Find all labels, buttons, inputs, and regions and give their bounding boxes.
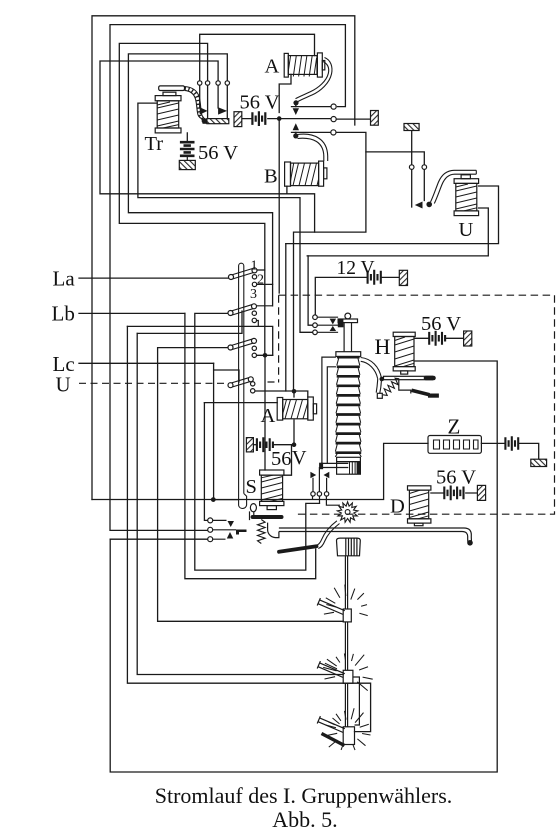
node mid A top dot — [292, 389, 297, 394]
wire H bottom to right border — [110, 361, 497, 772]
wire Tr battery to pad — [186, 156, 188, 161]
selector cone discs — [335, 357, 361, 453]
battery 12V — [368, 270, 381, 285]
ground pad Z row (hatched horizontal) — [531, 459, 547, 466]
contact circle lower bank 1 — [208, 518, 213, 523]
wire U switch feed from contact3 chain — [366, 152, 424, 165]
wire 12V feed — [315, 277, 367, 315]
ground pad top right (hatched horizontal with stem) — [404, 124, 419, 131]
svg-text:U: U — [56, 373, 71, 397]
wiper 3 spark lines — [324, 708, 371, 750]
node A armature dot — [293, 100, 298, 105]
wire mid bank stubs below — [313, 496, 341, 505]
contact circle U switch right — [422, 165, 427, 170]
wire mid A coil through — [293, 391, 295, 444]
wiper shaft segment 3 — [345, 683, 347, 727]
relay A top: coil body — [288, 56, 317, 77]
contact arrow mid bank right — [324, 472, 330, 479]
armature arc from collar — [361, 358, 382, 379]
wire alongside cone left inner — [327, 367, 336, 464]
wire mid battery to A — [273, 444, 294, 446]
wiper 2 collar — [343, 670, 353, 683]
wire U ground stem — [411, 131, 413, 166]
H armature bar black tip — [426, 376, 434, 381]
svg-text:56 V: 56 V — [240, 92, 280, 114]
relay Tr armature curved wire to contact pad — [185, 87, 208, 120]
wire 12V battery to ground — [382, 276, 400, 278]
svg-text:V: V — [292, 447, 307, 469]
wire A/B row3 left segment — [292, 131, 331, 133]
relay H bottom plate — [393, 367, 415, 371]
node Lc junction dot — [263, 353, 268, 358]
svg-text:A: A — [265, 56, 280, 78]
contact anchor block shaft rows — [338, 319, 344, 327]
wire A armature dot stub — [295, 103, 297, 107]
relay A mid: tab — [313, 404, 316, 414]
dashed box boundary — [279, 295, 555, 514]
svg-text:U: U — [459, 219, 474, 241]
contact circle La 3 — [252, 282, 256, 286]
contact circle A/B bank 1 — [331, 104, 336, 109]
relay A top armature curve — [298, 58, 332, 102]
switch actuating rod — [239, 263, 247, 508]
H armature bar — [384, 376, 433, 379]
wire Tr contacts verticals — [200, 85, 228, 118]
contact circle Lc 1 — [252, 346, 256, 350]
wire Lc jog — [214, 363, 239, 382]
selector shaft T-bar — [338, 319, 357, 323]
relay B: tab — [324, 168, 327, 179]
contact circle shaft row2 — [313, 323, 318, 328]
contact circle Tr bank 4 — [225, 81, 229, 85]
ground pad right of A/B bank (hatched vertical) — [371, 111, 379, 126]
ground pad 12V (hatched vertical) — [399, 270, 407, 285]
relay Tr top flange — [155, 96, 181, 101]
selector shaft column — [344, 323, 351, 352]
relay S tab — [267, 506, 276, 510]
wire Lc pivot to wiper1 — [158, 348, 344, 622]
wire S junction to rod — [213, 499, 238, 501]
wire Lc c2 chain — [127, 326, 272, 355]
wire La line — [79, 277, 229, 279]
wire U switch contact to U coil loop — [285, 244, 287, 391]
relay A mid: right flange — [308, 397, 314, 420]
contact circle shaft row1 — [313, 315, 318, 320]
wire U contact left lower — [411, 169, 413, 207]
wire B armature dot stub — [295, 132, 297, 136]
pawl arm from wheel — [318, 524, 339, 549]
contact circle Tr bank 2 — [205, 81, 209, 85]
svg-text:H: H — [375, 334, 391, 359]
wire loop2 from A/B contact1 — [110, 25, 345, 531]
wiper 3 collar — [343, 727, 354, 745]
wire A/B contact2 to ground — [336, 118, 371, 120]
wire wiper2 chain top stub — [137, 311, 242, 333]
wire Lc line — [79, 362, 214, 364]
battery Z row — [505, 436, 518, 451]
relay Tr bottom flange — [155, 128, 181, 133]
relay U top flange — [454, 179, 479, 184]
wiper 1 brush arm — [317, 598, 345, 614]
wire U contact right lower — [423, 169, 425, 200]
contact circle lower bank 3 — [208, 537, 213, 542]
svg-text:Lb: Lb — [52, 302, 75, 326]
wire La tip contact stub — [257, 269, 265, 271]
battery 56V Tr (vertical stack) — [180, 142, 195, 156]
relay U armature curve — [431, 170, 477, 202]
contact arrow Tr right — [218, 107, 227, 114]
relay H tab — [401, 371, 408, 374]
relay H coil body — [395, 337, 414, 367]
relay S coil body — [261, 475, 282, 501]
wire lower bank stubs — [213, 520, 236, 539]
svg-text:Abb. 5.: Abb. 5. — [272, 807, 337, 832]
wire U coil lower loop — [307, 208, 488, 256]
ground pad mid 56V (hatched vertical) — [246, 438, 253, 452]
wire Tr feed to shaft contact row3 — [138, 103, 313, 332]
H armature step — [399, 380, 411, 394]
release lever (black) — [279, 546, 317, 552]
contact circle lower bank 2 — [208, 527, 213, 532]
contact circle A/B bank 2 — [331, 117, 336, 122]
relay Tr coil body — [157, 101, 179, 128]
contact circle mid bank 1 — [311, 492, 315, 496]
relay Tr core cap — [163, 92, 176, 95]
relay S top plate — [260, 470, 284, 475]
wire B loop right branch to mid-A chain — [287, 194, 315, 232]
relay S bottom plate — [260, 501, 284, 505]
interrupter Z teeth — [434, 440, 479, 449]
wire line5 Tr circle4 to La contact3 chain — [128, 54, 272, 306]
battery 56V D row — [444, 486, 463, 501]
wire mid A coil top — [255, 391, 308, 397]
wire A/B contact3 chain to mid A coil — [294, 132, 366, 391]
wire mid bank verticals above — [313, 467, 327, 492]
wiper 2 brush arm — [317, 661, 345, 677]
contact arrow lower bank up — [227, 532, 234, 539]
svg-text:S: S — [246, 476, 257, 498]
svg-text:56 V: 56 V — [421, 313, 461, 335]
contact circle Lb 1 — [252, 311, 256, 315]
contact circle shaft row3 — [313, 330, 318, 335]
wire Lc vertical to S junction — [213, 370, 215, 500]
wire Tr battery stem — [186, 133, 188, 141]
wire mid A coil left — [204, 402, 277, 404]
switch Lc slash — [228, 338, 257, 350]
relay A top: tab — [322, 61, 325, 70]
relay B: coil body — [291, 163, 319, 186]
selector shaft collar — [336, 352, 361, 357]
ratchet star wheel — [337, 502, 358, 523]
battery 56V mid — [257, 437, 273, 452]
wire mid 56V battery to ground pad — [253, 444, 256, 446]
contact circle Tr bank 3 — [216, 81, 220, 85]
wiper 3 brush arm upper — [317, 716, 345, 732]
selector drum black band — [357, 462, 361, 475]
wire 56V top battery row — [242, 118, 332, 120]
ground pad below Tr battery (hatched) — [179, 160, 195, 169]
wire outer loop left/top — [92, 16, 355, 500]
svg-text:56 V: 56 V — [198, 142, 238, 164]
relay B: right flange — [319, 161, 324, 186]
node S junction dot — [211, 497, 216, 502]
contact bracket lower bank — [236, 530, 247, 535]
contact circle U switch left — [409, 165, 414, 170]
wire shaft row stubs — [317, 317, 338, 332]
contact arrow mid bank left — [310, 472, 316, 479]
relay U bottom flange — [454, 211, 479, 216]
contact circle Lb 2 — [252, 318, 256, 322]
wire line3 to Tr circle1 and A coil top — [200, 34, 315, 80]
wire Z battery to ground — [481, 443, 538, 459]
contact arrow A armature (down) — [293, 108, 299, 115]
svg-text:1: 1 — [251, 259, 258, 274]
selector band below cone — [337, 457, 361, 461]
wire U line dashed — [79, 382, 278, 383]
relay D bottom plate — [408, 519, 431, 523]
battery 56V top row — [252, 111, 265, 126]
wiper shaft segment 2 — [345, 622, 347, 670]
contact circle Tr bank 1 — [198, 81, 202, 85]
relay A mid: left flange — [277, 398, 283, 421]
selector bottom bar — [321, 463, 348, 467]
switch La slash — [229, 268, 258, 280]
node Tr armature contact dot — [202, 119, 207, 124]
contact circle Lc 2 — [252, 353, 256, 357]
wire shaft row2 feed from U-coil lower wire — [308, 256, 313, 325]
relay A top: left flange — [284, 53, 288, 77]
wire U coil upper loop — [286, 186, 499, 244]
wiper shaft segment 1 — [345, 556, 347, 609]
wire Lc contact2 jog — [256, 354, 273, 356]
contact arrow Tr left — [200, 107, 208, 114]
relay D tab — [414, 523, 423, 526]
interrupter Z box — [428, 436, 481, 454]
wire D coil to battery — [431, 492, 478, 494]
svg-text:D: D — [390, 496, 405, 518]
battery 56V H row — [429, 331, 445, 346]
contact circle mid bank 2 — [317, 492, 321, 496]
wire H coil to battery — [415, 337, 463, 339]
wiper 1 collar — [343, 609, 351, 622]
wire line4 Tr circle2 to La tip chain — [119, 43, 264, 355]
relay U coil body — [456, 183, 477, 211]
svg-text:Tr: Tr — [145, 133, 164, 155]
wire ground-S chain horizontal — [92, 443, 428, 499]
node H armature pivot dot — [380, 377, 385, 382]
contact circle mid bank 3 — [324, 492, 328, 496]
wire A coil to battery junction — [279, 74, 291, 112]
wire alongside cone left outer — [322, 357, 336, 464]
contact arrow U (left-pointing) — [415, 202, 423, 209]
relay B: left flange — [285, 162, 291, 186]
spring anchor square — [377, 393, 382, 398]
S armature vertical piece — [250, 511, 254, 520]
selector cone segment sides — [335, 359, 361, 457]
wiper 2 spark lines — [323, 654, 373, 691]
contact arrow lower bank down — [228, 521, 235, 527]
node B armature dot — [293, 133, 298, 138]
switch Lb slash — [228, 304, 257, 316]
wire battery junction down — [278, 120, 280, 293]
svg-text:B: B — [264, 166, 278, 188]
relay Tr armature bar — [159, 86, 185, 91]
selector shaft top circle — [345, 313, 351, 319]
relay D coil body — [409, 490, 428, 519]
relay H top plate — [393, 332, 415, 336]
H armature pawl (black) — [412, 390, 430, 395]
ground pad H row (hatched vertical) — [464, 331, 472, 346]
wire wiper2 chain — [137, 333, 343, 674]
wire lower bank contact3 — [110, 538, 208, 540]
selector drum striped block — [337, 462, 361, 475]
H armature spring zigzag — [383, 378, 399, 395]
node junction battery/A-coil — [277, 116, 282, 121]
node rail hook dot — [467, 540, 473, 546]
wiper 3 brush arm lower (black) — [322, 734, 345, 746]
S armature pivot ellipse — [250, 504, 256, 512]
wiper 2 link wire — [353, 677, 360, 725]
main horizontal rail upper — [279, 528, 472, 542]
ground pad D row (hatched vertical) — [477, 485, 485, 500]
wire Lc contact dot down to S coil — [264, 355, 266, 470]
main horizontal rail lower — [279, 532, 468, 543]
wire Lb tip stub — [256, 305, 272, 307]
contact arrow B armature (up) — [293, 123, 299, 130]
S armature spring zigzag — [258, 520, 266, 544]
contact pad of Tr armature (hatched) — [207, 119, 229, 124]
contact circle A/B bank 3 — [331, 130, 336, 135]
contact circle U 1 — [251, 382, 255, 386]
wire B coil loop to Tr circle3 — [100, 61, 287, 194]
H armature pawl bar (black) — [428, 394, 439, 398]
svg-text:12 V: 12 V — [337, 258, 375, 279]
wiper 1 spark lines — [324, 585, 368, 616]
motor magnet bell — [337, 538, 361, 556]
node mid battery junction dot — [292, 442, 297, 447]
wire lower bank contact1 feed — [204, 403, 207, 521]
wire A/B row1 left segment — [292, 106, 332, 108]
contact arrow shaft rows down — [330, 319, 337, 325]
armature arc continuation down — [376, 379, 381, 394]
Tr armature tip black — [203, 119, 209, 124]
node U armature dot — [426, 202, 432, 208]
contact arrow shaft rows up — [330, 326, 337, 331]
wire Lb line — [79, 312, 185, 314]
S armature bar (black) — [253, 515, 282, 519]
contact circle La 2 — [252, 275, 256, 279]
svg-text:La: La — [53, 266, 76, 290]
svg-text:2: 2 — [257, 273, 264, 288]
relay D top plate — [408, 486, 431, 490]
wire mid battery junction down — [284, 445, 292, 476]
relay B armature curve — [298, 134, 328, 161]
wire Lb second vertical to pawl arm — [185, 313, 316, 578]
ground pad top 56V row (hatched vertical) — [234, 112, 242, 127]
relay A top: right flange — [317, 53, 322, 77]
selector bar end black square — [319, 463, 323, 470]
svg-text:56: 56 — [271, 448, 292, 470]
S armature bracket quarter-round — [268, 523, 279, 538]
contact circle U 2 — [251, 389, 255, 393]
svg-text:Stromlauf des I. Gruppenwähler: Stromlauf des I. Gruppenwählers. — [155, 783, 453, 808]
relay U cap — [461, 175, 470, 179]
wire La contact3 stub — [257, 283, 273, 285]
svg-text:A: A — [261, 405, 276, 427]
wire Lb contact2 jog — [257, 321, 259, 327]
switch U slash — [228, 377, 253, 388]
wire wiper3 chain vertical — [127, 326, 370, 731]
wire Lb vertical to pawl contact — [195, 313, 320, 570]
relay A mid: coil body — [283, 400, 308, 419]
svg-text:3: 3 — [250, 287, 257, 302]
svg-text:56 V: 56 V — [436, 467, 476, 489]
